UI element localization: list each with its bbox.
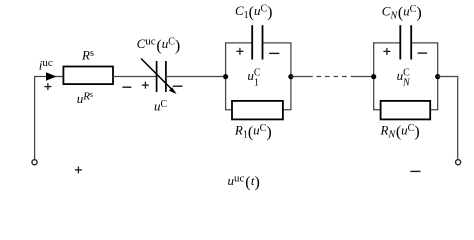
plus sign block N (383, 50, 390, 52)
plus sign block 1 (236, 50, 243, 52)
minus sign right of resistor (122, 86, 131, 88)
node dot right of block N (435, 74, 440, 79)
svg-text:Cuc(uC): Cuc(uC) (137, 36, 181, 55)
svg-text:uC1: uC1 (247, 67, 261, 88)
svg-text:uC: uC (154, 99, 168, 114)
wire dashes to block N (351, 76, 374, 78)
svg-text:uRs: uRs (77, 90, 93, 106)
svg-text:Rs: Rs (81, 47, 94, 62)
minus sign block 1 (269, 52, 279, 54)
wire capacitor to block 1 (166, 76, 226, 78)
variable capacitor C^uc plates (156, 61, 158, 92)
svg-text:R1(uC): R1(uC) (234, 123, 272, 141)
svg-text:RN(uC): RN(uC) (380, 122, 420, 140)
node dot left of block 1 (223, 74, 228, 79)
capacitor CN plates (399, 25, 401, 59)
resistor RN box (381, 101, 431, 120)
right terminal circle (456, 160, 461, 165)
wire resistor to capacitor (113, 76, 156, 78)
node dot right of block 1 (288, 74, 293, 79)
resistor R1 box (232, 101, 283, 120)
block 1 loop right wires (262, 43, 291, 110)
capacitor C1 plates (251, 25, 253, 59)
svg-text:C1(uC): C1(uC) (235, 3, 273, 21)
minus sign right of capacitor (173, 85, 183, 87)
block N loop left wires (374, 43, 401, 110)
plus sign left of capacitor (142, 84, 149, 86)
block 1 loop left wires (226, 43, 253, 110)
wire block1 to dashes (291, 76, 313, 78)
plus sign under current arrow (44, 86, 51, 88)
variable capacitor arrow diagonal (141, 59, 173, 91)
svg-text:CN(uC): CN(uC) (382, 3, 422, 21)
plus sign bottom left (75, 169, 82, 171)
wire left vertical and horizontal to resistor (35, 77, 64, 160)
minus sign bottom right (410, 170, 420, 172)
resistor R^s box (63, 67, 113, 85)
svg-text:iuc: iuc (39, 57, 53, 73)
current arrow i_uc (46, 72, 56, 81)
svg-text:uCN: uCN (397, 67, 411, 88)
node dot left of block N (371, 74, 376, 79)
dashed wire (317, 76, 348, 78)
svg-text:uuc(t): uuc(t) (228, 173, 260, 192)
block N loop right wires (411, 43, 438, 110)
wire block N to right terminal (438, 77, 458, 160)
left terminal circle (32, 160, 37, 165)
minus sign block N (418, 52, 428, 54)
